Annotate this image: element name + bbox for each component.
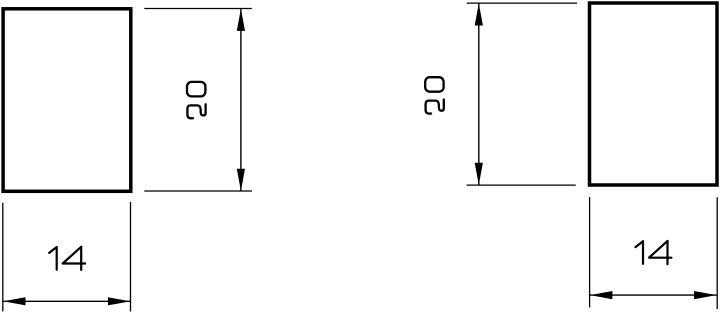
dimension line horizontal (right view, 14 dim) (590, 294, 717, 296)
arrowhead up (left view, 20 dim) (237, 9, 245, 31)
dimension text 20 (right view, rotated) (425, 77, 444, 113)
extension line bottom (right view, 20 dim) (467, 184, 576, 186)
extension line left (left view, 14 dim) (2, 203, 4, 312)
arrowhead right (left view, 14 dim) (108, 297, 130, 305)
dimension text 14 (left view) (49, 247, 85, 270)
extension line bottom (left view, 20 dim) (144, 190, 252, 192)
part outline rectangle (right view, 14 x 20) (590, 3, 718, 185)
dimension line horizontal (left view, 14 dim) (3, 300, 130, 302)
extension line right (left view, 14 dim) (130, 202, 132, 312)
dimension line vertical (left view, 20 dim) (240, 9, 242, 191)
dimension text 20 (left view, rotated) (187, 82, 206, 118)
extension line right (right view, 14 dim) (716, 197, 718, 309)
extension line top (left view, 20 dim) (144, 8, 252, 10)
extension line left (right view, 14 dim) (589, 197, 591, 307)
dimension line vertical (right view, 20 dim) (478, 3, 480, 185)
arrowhead right (right view, 14 dim) (694, 291, 716, 299)
arrowhead down (right view, 20 dim) (475, 163, 483, 185)
part outline rectangle (left view, 14 x 20) (3, 9, 131, 192)
arrowhead left (left view, 14 dim) (3, 297, 25, 305)
extension line top (right view, 20 dim) (467, 2, 577, 4)
arrowhead left (right view, 14 dim) (590, 291, 612, 299)
arrowhead down (left view, 20 dim) (237, 169, 245, 191)
arrowhead up (right view, 20 dim) (475, 3, 483, 25)
dimension text 14 (right view) (636, 241, 672, 264)
